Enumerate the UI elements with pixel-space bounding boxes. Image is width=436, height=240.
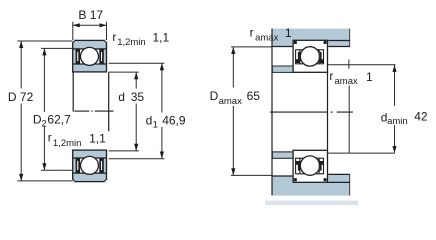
svg-text:1: 1 xyxy=(366,70,373,84)
svg-text:B 17: B 17 xyxy=(78,8,103,22)
svg-text:1,2min: 1,2min xyxy=(117,37,146,48)
svg-text:amax: amax xyxy=(219,96,242,107)
svg-text:1,2min: 1,2min xyxy=(53,138,82,149)
svg-text:62,7: 62,7 xyxy=(47,112,71,126)
svg-text:1,1: 1,1 xyxy=(153,30,170,44)
svg-text:D: D xyxy=(210,89,219,103)
svg-text:amin: amin xyxy=(387,116,408,127)
svg-text:amax: amax xyxy=(255,33,278,44)
svg-text:65: 65 xyxy=(247,89,261,103)
svg-text:46,9: 46,9 xyxy=(162,113,186,127)
svg-text:42: 42 xyxy=(414,110,428,124)
svg-text:1,1: 1,1 xyxy=(89,132,106,146)
svg-text:r: r xyxy=(48,130,52,144)
svg-text:1: 1 xyxy=(285,26,292,40)
svg-text:r: r xyxy=(250,25,254,39)
svg-text:2: 2 xyxy=(41,119,46,130)
svg-text:r: r xyxy=(329,69,333,83)
svg-text:35: 35 xyxy=(131,90,145,104)
svg-text:1: 1 xyxy=(153,120,158,131)
svg-text:D 72: D 72 xyxy=(8,90,34,104)
svg-text:amax: amax xyxy=(335,76,358,87)
svg-text:d: d xyxy=(146,113,153,127)
svg-text:r: r xyxy=(112,30,116,44)
svg-text:d: d xyxy=(118,90,125,104)
